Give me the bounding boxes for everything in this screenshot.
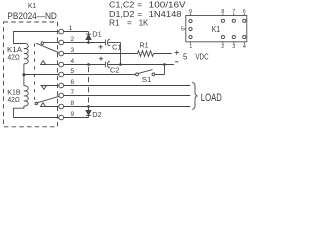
- footprint stub top x235.8: [233, 14, 235, 16]
- wire pin1 to D1: [64, 31, 89, 33]
- wire pin1 internal loop: [14, 32, 59, 44]
- svg-text:2: 2: [221, 44, 224, 50]
- svg-text:5: 5: [71, 68, 75, 75]
- svg-text:42Ω: 42Ω: [8, 95, 21, 104]
- switch S1: [136, 70, 155, 76]
- footprint stub top x244.7: [243, 14, 245, 16]
- svg-text:3: 3: [232, 44, 235, 50]
- minus sign supply: [175, 61, 179, 63]
- svg-text:1: 1: [69, 25, 73, 32]
- mechanical linkage dashed: [34, 44, 36, 105]
- svg-text:7: 7: [232, 9, 235, 15]
- svg-text:6: 6: [243, 9, 246, 15]
- svg-text:2: 2: [71, 36, 75, 43]
- footprint pin circle 6: [243, 19, 246, 22]
- junction dot S1 tap: [163, 63, 166, 66]
- svg-text:C2: C2: [110, 67, 119, 74]
- svg-text:9: 9: [71, 111, 75, 118]
- footprint pin circle 9: [189, 19, 192, 22]
- contact set1 point circle: [41, 42, 44, 45]
- svg-text:LOAD: LOAD: [201, 92, 222, 104]
- pin 1 circle: [59, 29, 64, 34]
- svg-text:5: 5: [183, 51, 188, 61]
- footprint pin circle 3: [232, 35, 235, 38]
- footprint stub bottom x190.5: [190, 42, 192, 44]
- footprint stub top x190.5: [190, 14, 192, 16]
- svg-text:8: 8: [71, 100, 75, 107]
- capacitor C2: [105, 61, 110, 68]
- pin 7 circle: [59, 93, 64, 98]
- footprint stub bottom x235.8: [233, 42, 235, 44]
- svg-text:1N4148: 1N4148: [149, 10, 182, 19]
- pin 6 circle: [59, 83, 64, 88]
- footprint box K1: [186, 16, 247, 42]
- contact set1 blade from pin3: [36, 43, 59, 53]
- armature triangle B under wire6: [41, 86, 46, 90]
- coil K1B: [24, 86, 28, 106]
- pin 8 circle: [59, 104, 64, 109]
- contact set2 blade from pin7: [36, 96, 59, 103]
- dashed rail wire4 to wire8: [88, 67, 90, 104]
- resistor R1: [138, 51, 154, 57]
- svg-text:C1,C2: C1,C2: [109, 1, 135, 10]
- pin 3 circle: [59, 51, 64, 56]
- contact set1 fixed wire pin2: [44, 42, 59, 44]
- wire C2 to minus rail: [108, 64, 174, 66]
- pin 2 circle: [59, 40, 64, 45]
- load brace: [192, 82, 197, 109]
- svg-text:4: 4: [71, 58, 75, 65]
- svg-text:6: 6: [71, 79, 75, 86]
- wire pin5 internal: [24, 74, 59, 76]
- plus sign C2: [99, 57, 103, 61]
- plus sign C1: [99, 45, 103, 49]
- diode D1: [86, 32, 91, 43]
- svg-text:=: =: [127, 18, 132, 27]
- parts list line 2: [109, 10, 182, 19]
- wire junction to coil K1B: [23, 75, 25, 86]
- footprint pin circle 4: [243, 35, 246, 38]
- footprint pin circle 7: [232, 19, 235, 22]
- svg-text:1: 1: [189, 44, 192, 50]
- svg-text:3: 3: [71, 47, 75, 54]
- footprint pin circle 8: [221, 19, 224, 22]
- junction dot cap rail on wire4: [119, 63, 122, 66]
- footprint stub top x226.7: [222, 14, 224, 16]
- coil K1A: [24, 43, 28, 63]
- parts list line 1: [109, 1, 186, 10]
- pin 4 circle: [59, 62, 64, 67]
- armature triangle C on wire8: [41, 103, 46, 107]
- svg-text:S1: S1: [142, 77, 152, 84]
- wire pin4 internal: [46, 64, 59, 66]
- armature triangle A: [41, 61, 46, 65]
- vertical cap rail: [120, 43, 122, 65]
- svg-text:PB2024—ND: PB2024—ND: [7, 11, 57, 22]
- footprint pin circle 5: [189, 27, 192, 30]
- wire R1 to plus: [154, 53, 172, 55]
- wire pin4 to C2: [64, 64, 106, 66]
- wire pin7 to load: [64, 95, 191, 97]
- plus sign supply: [175, 51, 179, 55]
- svg-text:9: 9: [189, 9, 192, 15]
- svg-text:5: 5: [181, 26, 184, 32]
- pin 9 circle: [59, 115, 64, 120]
- contact set2 point circle: [35, 102, 38, 105]
- diode D2: [86, 107, 91, 118]
- svg-text:1K: 1K: [139, 18, 149, 27]
- wire C1 right: [108, 42, 120, 44]
- svg-text:42Ω: 42Ω: [8, 52, 21, 61]
- wire pin8 internal: [41, 106, 59, 108]
- wire coilB to pin9: [14, 106, 59, 118]
- wire pin3 to R1: [64, 53, 138, 55]
- wire pin8 to load: [64, 106, 191, 108]
- svg-text:K1: K1: [212, 24, 221, 34]
- pin 5 circle: [59, 72, 64, 77]
- svg-text:D1: D1: [92, 32, 102, 39]
- wire pin5 to S1: [64, 74, 136, 76]
- svg-text:R1: R1: [140, 43, 149, 50]
- svg-text:8: 8: [221, 9, 224, 15]
- wire pin6 to load: [64, 85, 191, 87]
- wire pin2 to C1: [64, 42, 106, 44]
- svg-text:R1: R1: [109, 18, 120, 27]
- svg-text:VDC: VDC: [195, 51, 208, 61]
- svg-text:D2: D2: [92, 112, 102, 119]
- wire pin6 internal: [41, 85, 59, 87]
- svg-text:=: =: [137, 1, 142, 10]
- svg-text:4: 4: [243, 44, 246, 50]
- svg-text:7: 7: [71, 89, 75, 96]
- junction dot D1 on wire2: [87, 41, 90, 44]
- svg-text:100/16V: 100/16V: [149, 1, 187, 10]
- wire pin9 to D2: [64, 117, 89, 119]
- junction dot dashed rail top: [87, 63, 90, 66]
- junction dot coil common: [22, 73, 25, 76]
- parts list line 3: [109, 18, 149, 27]
- capacitor C1: [105, 39, 110, 46]
- footprint stub left 5: [184, 28, 186, 30]
- relay K1 dashed enclosure box: [4, 22, 58, 127]
- junction dot D2 on wire8: [87, 105, 90, 108]
- footprint pin circle 2: [221, 35, 224, 38]
- svg-text:K1: K1: [28, 1, 36, 10]
- footprint pin circle 1: [189, 35, 192, 38]
- footprint stub bottom x244.7: [243, 42, 245, 44]
- wire coilA to junction: [23, 64, 25, 75]
- footprint stub bottom x226.7: [222, 42, 224, 44]
- wire S1 to minus rail: [155, 65, 165, 75]
